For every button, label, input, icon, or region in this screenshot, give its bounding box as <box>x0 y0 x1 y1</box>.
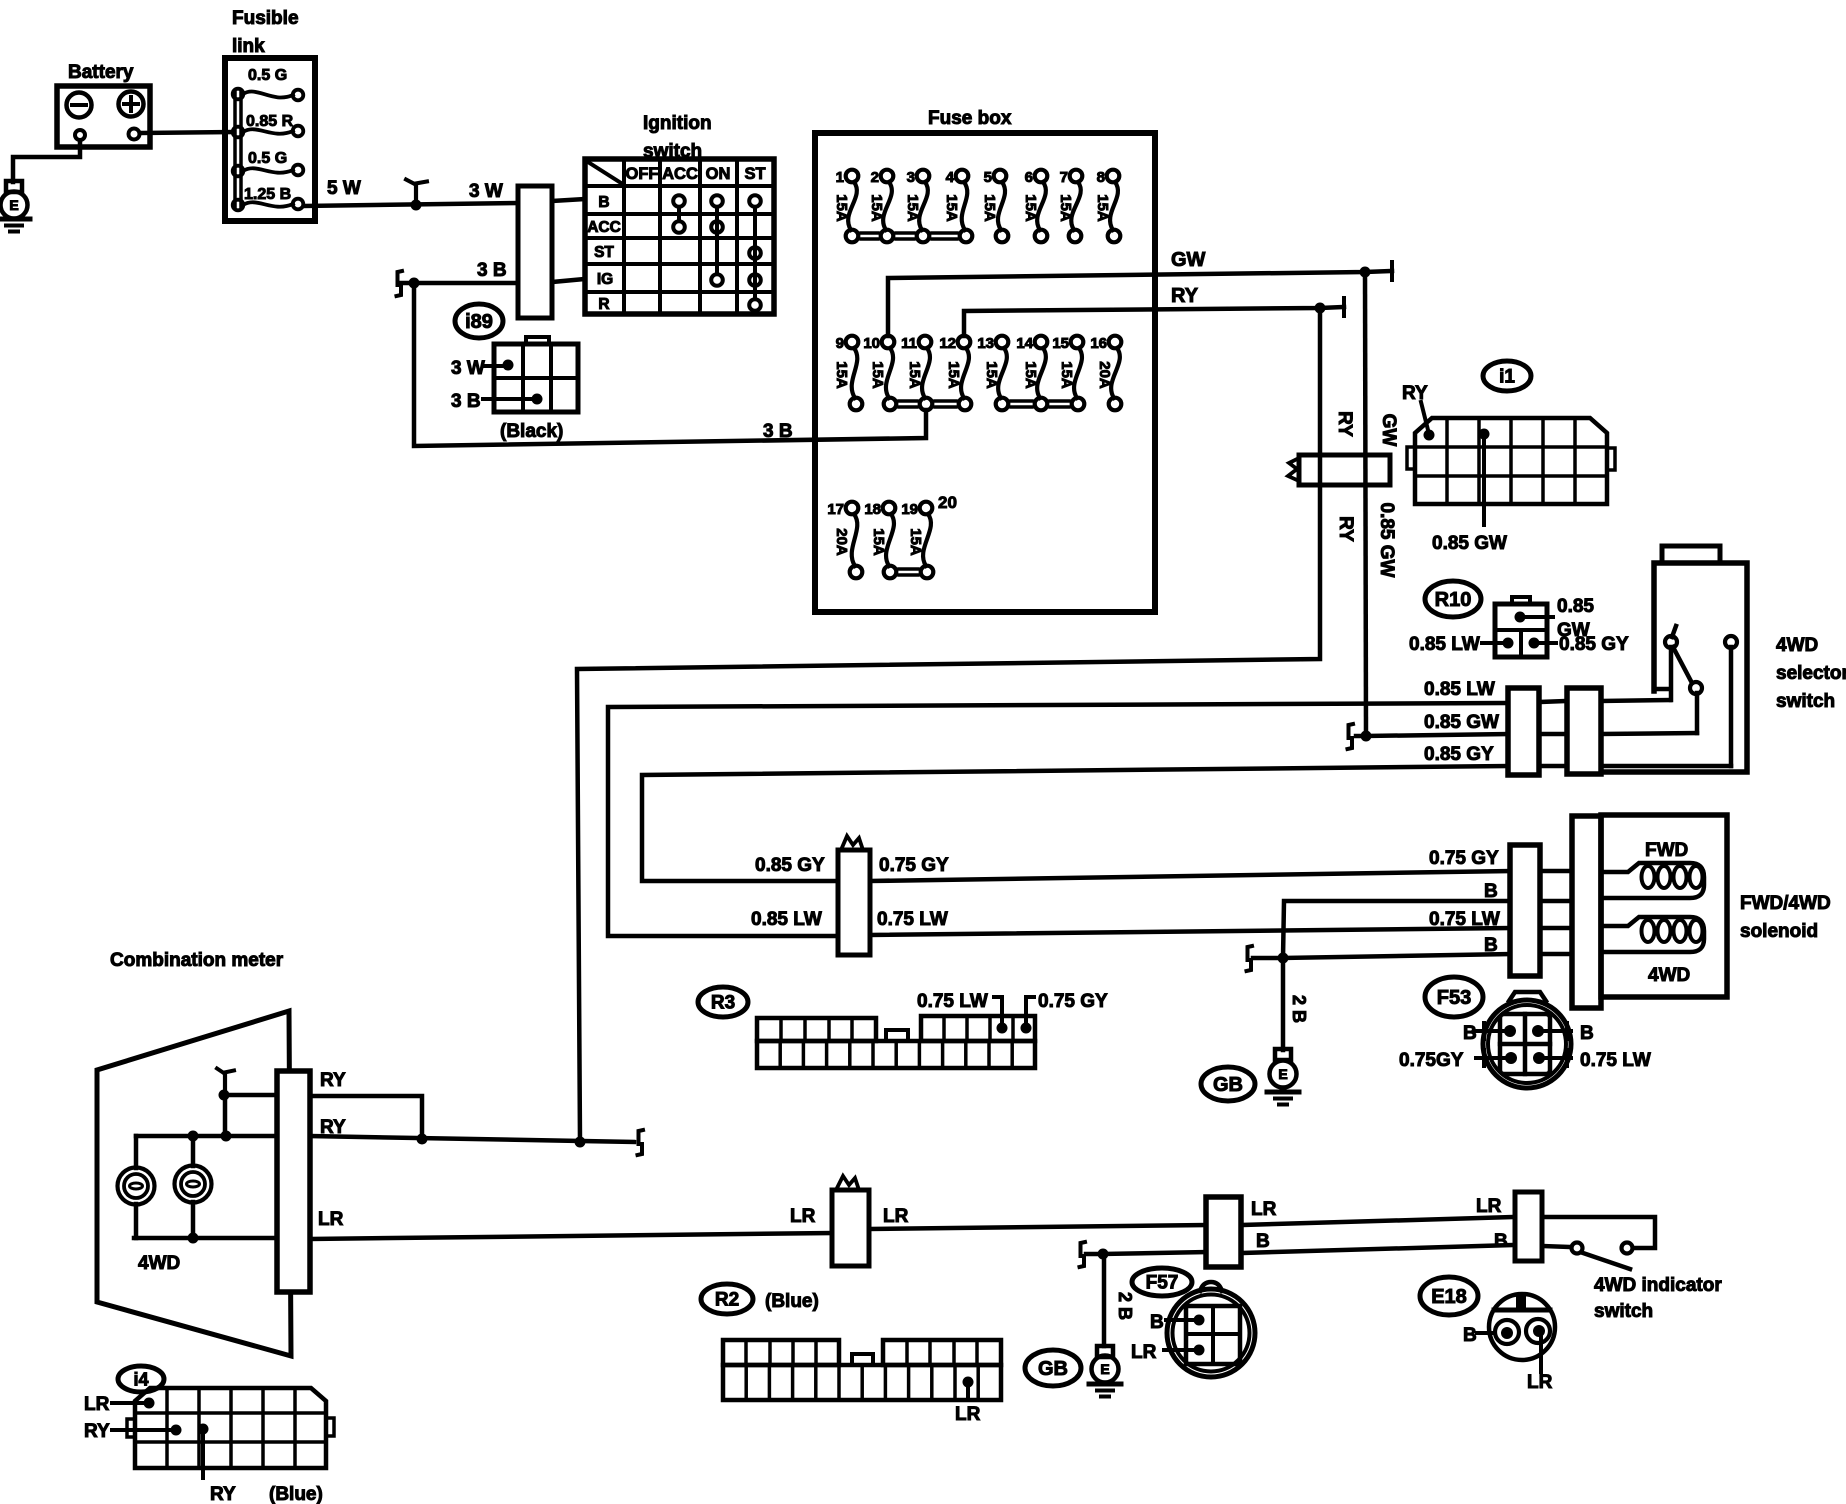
svg-text:20A: 20A <box>1096 361 1113 389</box>
svg-text:switch: switch <box>1776 691 1835 712</box>
svg-text:14: 14 <box>1016 335 1033 352</box>
svg-text:Ignition: Ignition <box>643 113 712 134</box>
svg-text:4WD: 4WD <box>1648 965 1690 986</box>
svg-text:0.85 GW: 0.85 GW <box>1376 503 1397 578</box>
svg-text:i1: i1 <box>1499 367 1515 388</box>
svg-text:ACC: ACC <box>587 219 621 236</box>
svg-text:13: 13 <box>977 335 994 352</box>
svg-text:i89: i89 <box>465 311 493 333</box>
svg-text:F57: F57 <box>1146 1273 1179 1294</box>
svg-text:0.75 LW: 0.75 LW <box>877 909 948 930</box>
svg-text:LR: LR <box>1476 1196 1502 1217</box>
svg-text:1: 1 <box>836 169 844 186</box>
svg-text:GW: GW <box>1171 249 1206 271</box>
svg-text:E: E <box>1278 1066 1287 1082</box>
svg-text:0.5 G: 0.5 G <box>248 150 287 167</box>
svg-text:B: B <box>1150 1312 1164 1333</box>
svg-text:15A: 15A <box>1022 361 1039 389</box>
svg-text:(Blue): (Blue) <box>765 1291 819 1312</box>
svg-text:FWD: FWD <box>1645 840 1688 861</box>
svg-text:0.85 GW: 0.85 GW <box>1432 533 1507 554</box>
svg-text:15A: 15A <box>1094 194 1111 222</box>
svg-text:ST: ST <box>744 165 765 183</box>
svg-text:12: 12 <box>939 335 956 352</box>
svg-text:RY: RY <box>210 1484 236 1504</box>
svg-text:LR: LR <box>790 1206 816 1227</box>
svg-text:17: 17 <box>827 501 844 518</box>
svg-text:R: R <box>598 296 609 313</box>
svg-text:2 B: 2 B <box>1115 1292 1135 1320</box>
svg-text:Fuse box: Fuse box <box>928 108 1012 129</box>
svg-text:3 B: 3 B <box>477 260 507 281</box>
svg-text:11: 11 <box>901 335 917 352</box>
svg-text:LR: LR <box>84 1394 110 1415</box>
svg-text:15A: 15A <box>907 528 924 556</box>
svg-text:6: 6 <box>1025 169 1033 186</box>
svg-text:3 B: 3 B <box>763 421 793 442</box>
svg-text:4WD: 4WD <box>138 1253 180 1274</box>
svg-text:2 B: 2 B <box>1289 995 1309 1023</box>
svg-text:20A: 20A <box>833 528 850 556</box>
svg-text:E: E <box>1100 1361 1109 1377</box>
svg-text:0.75 LW: 0.75 LW <box>917 991 988 1012</box>
svg-text:E18: E18 <box>1431 1286 1467 1308</box>
svg-text:0.85 LW: 0.85 LW <box>751 909 822 930</box>
svg-text:5: 5 <box>984 169 992 186</box>
svg-text:0.85 GY: 0.85 GY <box>1424 744 1494 765</box>
svg-text:15A: 15A <box>869 361 886 389</box>
svg-text:0.75 GY: 0.75 GY <box>1038 991 1108 1012</box>
svg-text:15A: 15A <box>945 361 962 389</box>
svg-text:20: 20 <box>938 493 957 512</box>
svg-text:GB: GB <box>1213 1074 1243 1096</box>
svg-text:RY: RY <box>320 1070 346 1091</box>
svg-text:FWD/4WD: FWD/4WD <box>1740 893 1831 914</box>
svg-text:15A: 15A <box>868 194 885 222</box>
svg-text:0.75 LW: 0.75 LW <box>1580 1050 1651 1071</box>
svg-text:B: B <box>1463 1325 1477 1346</box>
svg-text:R3: R3 <box>711 993 735 1014</box>
svg-text:7: 7 <box>1060 169 1068 186</box>
svg-text:0.75 LW: 0.75 LW <box>1429 909 1500 930</box>
svg-text:B: B <box>1484 881 1498 902</box>
svg-text:0.85 GW: 0.85 GW <box>1424 712 1499 733</box>
svg-text:LR: LR <box>318 1209 344 1230</box>
svg-text:IG: IG <box>597 271 613 288</box>
svg-text:switch: switch <box>1594 1301 1653 1322</box>
svg-text:RY: RY <box>1334 411 1355 437</box>
svg-text:selector: selector <box>1776 663 1846 684</box>
svg-text:GB: GB <box>1038 1358 1068 1380</box>
svg-text:RY: RY <box>320 1117 346 1138</box>
svg-text:0.85 GY: 0.85 GY <box>755 855 825 876</box>
svg-text:R10: R10 <box>1435 589 1472 611</box>
svg-text:15A: 15A <box>1022 194 1039 222</box>
svg-text:RY: RY <box>1335 516 1356 542</box>
svg-text:E: E <box>9 197 18 213</box>
svg-text:B: B <box>1494 1231 1508 1252</box>
svg-text:link: link <box>232 36 265 57</box>
svg-text:0.75 GY: 0.75 GY <box>1429 848 1499 869</box>
svg-text:RY: RY <box>1171 285 1199 307</box>
svg-text:GW: GW <box>1378 414 1399 447</box>
svg-text:OFF: OFF <box>626 165 659 183</box>
svg-text:15A: 15A <box>906 361 923 389</box>
svg-text:4WD indicator: 4WD indicator <box>1594 1275 1722 1296</box>
svg-text:LR: LR <box>883 1206 909 1227</box>
svg-text:15A: 15A <box>904 194 921 222</box>
svg-text:LR: LR <box>955 1404 981 1425</box>
svg-text:15A: 15A <box>833 361 850 389</box>
svg-text:B: B <box>1484 935 1498 956</box>
svg-text:0.85 LW: 0.85 LW <box>1424 679 1495 700</box>
svg-text:LR: LR <box>1527 1372 1553 1393</box>
svg-text:B: B <box>1256 1231 1270 1252</box>
svg-text:ST: ST <box>594 244 614 261</box>
svg-text:RY: RY <box>84 1421 110 1442</box>
svg-text:3 B: 3 B <box>451 391 481 412</box>
svg-text:B: B <box>1463 1023 1477 1044</box>
svg-text:15A: 15A <box>983 361 1000 389</box>
svg-text:1.25 B: 1.25 B <box>244 186 291 203</box>
svg-text:0.5 G: 0.5 G <box>248 67 287 84</box>
svg-text:8: 8 <box>1097 169 1105 186</box>
svg-text:0.85 LW: 0.85 LW <box>1409 634 1480 655</box>
svg-text:B: B <box>598 194 609 211</box>
svg-text:15A: 15A <box>1058 361 1075 389</box>
svg-text:3 W: 3 W <box>469 181 503 202</box>
svg-text:4: 4 <box>946 169 955 186</box>
svg-text:15A: 15A <box>1057 194 1074 222</box>
svg-text:Battery: Battery <box>68 62 134 83</box>
svg-text:15: 15 <box>1052 335 1069 352</box>
svg-text:RY: RY <box>1402 383 1428 404</box>
svg-text:Combination meter: Combination meter <box>110 950 284 971</box>
svg-text:F53: F53 <box>1437 987 1471 1009</box>
svg-text:0.85: 0.85 <box>1557 596 1594 617</box>
svg-text:9: 9 <box>836 335 844 352</box>
svg-text:15A: 15A <box>981 194 998 222</box>
svg-text:Fusible: Fusible <box>232 8 299 29</box>
svg-text:(Black): (Black) <box>500 421 563 442</box>
svg-text:4WD: 4WD <box>1776 635 1818 656</box>
svg-text:15A: 15A <box>943 194 960 222</box>
svg-text:(Blue): (Blue) <box>269 1484 323 1504</box>
svg-text:0.75 GY: 0.75 GY <box>879 855 949 876</box>
svg-text:solenoid: solenoid <box>1740 921 1818 942</box>
svg-text:LR: LR <box>1131 1342 1157 1363</box>
svg-text:0.85 R: 0.85 R <box>246 113 294 130</box>
svg-text:16: 16 <box>1090 335 1107 352</box>
svg-text:ON: ON <box>706 165 731 183</box>
svg-text:18: 18 <box>864 501 881 518</box>
svg-text:2: 2 <box>871 169 879 186</box>
svg-text:15A: 15A <box>833 194 850 222</box>
svg-text:5 W: 5 W <box>327 178 361 199</box>
svg-text:15A: 15A <box>870 528 887 556</box>
svg-text:3: 3 <box>907 169 915 186</box>
svg-text:10: 10 <box>863 335 880 352</box>
svg-text:R2: R2 <box>715 1290 739 1311</box>
svg-text:ACC: ACC <box>662 165 698 183</box>
svg-text:0.75GY: 0.75GY <box>1399 1050 1464 1071</box>
svg-text:LR: LR <box>1251 1199 1277 1220</box>
svg-text:B: B <box>1580 1023 1594 1044</box>
svg-text:19: 19 <box>901 501 918 518</box>
svg-text:0.85 GY: 0.85 GY <box>1559 634 1629 655</box>
svg-text:switch: switch <box>643 141 702 162</box>
svg-text:3 W: 3 W <box>451 358 485 379</box>
svg-text:i4: i4 <box>133 1369 148 1389</box>
